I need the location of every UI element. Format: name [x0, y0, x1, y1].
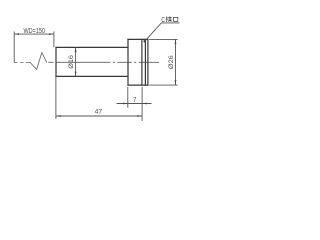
- WD=150 dimension line: [14, 33, 54, 35]
- wire body bottom edge: [56, 75, 128, 77]
- dia16 top arrow: [75, 47, 77, 52]
- 47 left extension: [55, 76, 57, 119]
- ring middle line: [144, 39, 146, 85]
- wire body left edge: [55, 47, 57, 76]
- arrowheads: [14, 33, 176, 117]
- svg-text:WD=150: WD=150: [24, 26, 46, 35]
- svg-text:Ø26: Ø26: [168, 55, 175, 69]
- dia16 dimension line: [75, 47, 77, 76]
- WD right arrow: [49, 33, 54, 35]
- 47 dimension line: [56, 115, 142, 117]
- 47 right arrow: [137, 115, 142, 117]
- flange bottom edge: [128, 84, 148, 86]
- 7 left extension: [127, 87, 129, 108]
- extension lines: [14, 31, 177, 121]
- leader dot: [144, 40, 147, 43]
- dia26 top extension: [149, 38, 177, 40]
- ring left line (C-mount face): [141, 39, 143, 85]
- wire body top edge: [56, 46, 128, 48]
- dia16 bottom arrow: [75, 72, 77, 77]
- flange top edge: [128, 38, 148, 40]
- WD right extension: [53, 31, 55, 47]
- centerline (optical axis dash-dot): [14, 53, 159, 70]
- 7 right outside arrow: [142, 103, 147, 105]
- glyph 接 (hand-drawn strokes): [166, 16, 172, 22]
- 47 left arrow: [56, 115, 61, 117]
- glyph 口 (hand-drawn box): [174, 17, 178, 21]
- dia26 dimension line: [175, 39, 177, 85]
- 7 dimension line with outside tails: [117, 103, 152, 105]
- dimension lines: [14, 34, 175, 116]
- body cylinder outline (Ø16 tube): [56, 39, 148, 85]
- WD left arrow: [14, 33, 19, 35]
- 7 left outside arrow: [123, 103, 128, 105]
- ring right edge: [147, 39, 149, 85]
- svg-text:47: 47: [95, 109, 103, 116]
- shared right extension (7 and 47): [141, 87, 143, 121]
- WD left extension: [13, 31, 15, 62]
- dia26 bottom arrow: [175, 80, 177, 85]
- dia26 bottom extension: [149, 84, 177, 86]
- flange left edge: [127, 39, 129, 85]
- dia26 top arrow: [175, 39, 177, 44]
- svg-text:C: C: [161, 17, 165, 24]
- svg-text:Ø16: Ø16: [68, 55, 75, 69]
- leader line for C interface: [145, 23, 180, 41]
- svg-text:7: 7: [133, 95, 136, 104]
